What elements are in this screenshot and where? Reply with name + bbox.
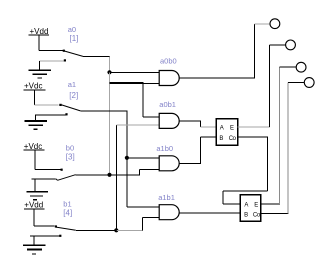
- ground symbol (cell a1): [25, 121, 48, 129]
- wire U1 Co return left: [223, 190, 267, 192]
- wire U2 E output to P2 riser: [261, 203, 280, 205]
- wire P3 to connector: [288, 82, 304, 84]
- wire a0 to gate a0b0 top input: [110, 71, 160, 73]
- power label +Vdc (cell a1): [24, 82, 46, 91]
- wire ground lead (cell a0): [39, 61, 41, 71]
- wire switch J4 top contact: [34, 225, 55, 227]
- terminal tick J1 bottom: [64, 59, 66, 61]
- label a1 [2]: [68, 80, 79, 100]
- svg-text:[1]: [1]: [70, 34, 79, 43]
- wire a0b1 output: [179, 120, 201, 122]
- svg-text:E: E: [254, 202, 258, 208]
- switch J3 blade (b0): [56, 175, 76, 181]
- wire b0 to gate a0b0 bottom input: [143, 83, 159, 85]
- wire Vdd lead down (cell b1): [33, 209, 35, 226]
- wire gray vertical bus (b0 riser): [109, 72, 111, 175]
- wire switch J3 top contact: [35, 168, 62, 170]
- ground symbol (cell b0): [27, 192, 48, 200]
- svg-text:B: B: [219, 136, 223, 142]
- node junction b0: [107, 173, 111, 177]
- wire a1 to gate a1b1 top input: [127, 206, 159, 208]
- wire a0 jog down to gate a0b1: [142, 83, 144, 117]
- svg-text:Co: Co: [253, 212, 261, 218]
- wire a0b1 jog down: [200, 121, 202, 127]
- switch J2 bottom contact: [35, 114, 67, 116]
- wire P1 to connector: [270, 44, 286, 46]
- connector P1: [286, 40, 296, 50]
- svg-text:b0: b0: [66, 144, 74, 153]
- svg-text:+Vdc: +Vdc: [24, 142, 42, 151]
- power label +Vdd (cell a0): [29, 27, 50, 36]
- wire P0 to connector: [255, 23, 270, 25]
- switch J1 blade (a0): [63, 50, 83, 57]
- wire U1 E output (gray) to P1 riser: [238, 126, 270, 128]
- wire a1b0 jog up: [200, 137, 202, 163]
- wire a1b0 output: [179, 162, 201, 164]
- half adder U2 box: [240, 195, 261, 222]
- wire b0 to gate a1b0 bottom input: [140, 168, 160, 170]
- terminal tick J4 bottom: [59, 235, 61, 237]
- wire Vdc lead down (cell b0): [34, 150, 36, 169]
- wire U2 Co output to P3 riser: [261, 213, 289, 215]
- terminal tick J2 top: [59, 104, 61, 106]
- svg-text:a0b1: a0b1: [159, 100, 176, 109]
- power label +Vdc (cell b0): [23, 142, 44, 151]
- wire b1 vertical riser: [115, 125, 117, 230]
- wire P2 to connector: [279, 66, 296, 68]
- wire U1 Co down: [266, 137, 268, 191]
- wire switch J3 pole (b0): [76, 174, 141, 176]
- wire P3 riser up: [287, 83, 289, 214]
- wire switch J2 pole: [80, 110, 127, 112]
- label b0 [3]: [66, 144, 75, 162]
- switch J4 blade (b1): [55, 225, 76, 230]
- svg-text:a0: a0: [68, 25, 76, 34]
- power label +Vdd (cell b1): [24, 201, 45, 210]
- wire to U2 A input: [223, 203, 240, 205]
- wire a0b0 output to P0 riser: [179, 77, 255, 79]
- switch J3 bottom contact: [32, 178, 56, 180]
- wire b1 to gate a1b1 bottom input: [142, 217, 159, 219]
- connector P2: [296, 62, 306, 72]
- switch J4 bottom contact: [30, 235, 61, 237]
- wire thick overlap a0/b0 horizontal: [110, 82, 144, 84]
- svg-text:A: A: [220, 126, 224, 132]
- wire a1 to gate a1b0 top input: [127, 157, 159, 159]
- ground symbol (cell a0): [28, 70, 51, 78]
- wire a0b1 to U1 A input (gray): [201, 126, 216, 128]
- switch J1 bottom contact (gray): [40, 60, 65, 62]
- wire b1 pole continue (gray): [116, 229, 143, 231]
- wire a0 vertical jog down: [109, 56, 111, 72]
- connector P3: [304, 78, 314, 88]
- label b1 [4]: [63, 199, 72, 217]
- svg-text:E: E: [230, 126, 234, 132]
- wire Vdc lead down (cell a1): [33, 90, 35, 105]
- AND gate a0b1: [159, 113, 179, 128]
- wire a1b0 to U1 B input: [201, 136, 216, 138]
- svg-text:+Vdc: +Vdc: [24, 82, 42, 91]
- half adder U1 box: [216, 119, 238, 145]
- wire P1 riser up: [269, 45, 271, 127]
- node junction b1: [114, 228, 118, 232]
- wire switch J2 top contact (gray): [34, 104, 58, 106]
- svg-text:a1b0: a1b0: [156, 144, 173, 153]
- wire a1b1 output to U2 B input: [179, 212, 240, 214]
- wire ground lead (cell b0): [34, 179, 36, 192]
- node junction a0: [107, 70, 111, 74]
- wire switch J4 pole (b1): [76, 229, 117, 231]
- ground symbol (cell b1): [23, 245, 46, 254]
- svg-text:a1b1: a1b1: [158, 193, 175, 202]
- wire U1 Co down to U2 A level: [222, 191, 224, 204]
- wire ground lead (cell b1): [33, 236, 35, 245]
- wire U1 Co output: [238, 136, 268, 138]
- wire a0 to gate a0b1 top input: [143, 116, 159, 118]
- label a0 [1]: [68, 25, 79, 43]
- svg-text:Co: Co: [229, 136, 237, 142]
- wire Vdd lead down to switch J1 top contact: [38, 36, 40, 51]
- wire b1 to gate a0b1 bottom input (gray): [116, 124, 159, 126]
- switch J2 blade (a1): [62, 105, 81, 111]
- svg-text:a1: a1: [68, 80, 76, 89]
- wire b0 jog up: [139, 169, 141, 174]
- svg-text:[4]: [4]: [63, 209, 72, 218]
- wire P0 riser up: [254, 24, 256, 78]
- wire ground lead (cell a1): [35, 115, 37, 121]
- svg-text:a0b0: a0b0: [160, 57, 177, 66]
- svg-text:b1: b1: [63, 199, 71, 208]
- wire switch J1 top contact: [39, 49, 64, 51]
- AND gate a1b1: [159, 205, 179, 220]
- svg-text:B: B: [244, 212, 248, 218]
- wire a1 vertical bus: [126, 111, 128, 207]
- terminal tick J3 top: [61, 169, 63, 171]
- terminal tick J2 bottom: [65, 113, 67, 115]
- svg-text:+Vdd: +Vdd: [24, 201, 43, 210]
- svg-text:[3]: [3]: [66, 153, 75, 162]
- AND gate a0b0: [159, 71, 179, 86]
- wire P2 riser up: [278, 67, 280, 204]
- AND gate a1b0: [159, 156, 179, 171]
- wire switch J1 pole to bus: [83, 55, 110, 57]
- svg-text:[2]: [2]: [69, 91, 78, 100]
- connector P0: [270, 19, 280, 29]
- svg-text:A: A: [244, 202, 248, 208]
- wire b1 jog up to gate a1b1: [141, 218, 143, 231]
- node junction a1: [125, 156, 129, 160]
